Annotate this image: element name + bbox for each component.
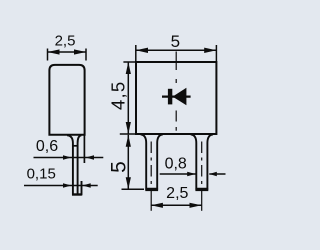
dimension line 0,8 <box>160 172 226 177</box>
svg-text:0,6: 0,6 <box>36 138 58 155</box>
lead 1 (left, front view) <box>141 134 163 188</box>
svg-text:4,5: 4,5 <box>107 81 128 110</box>
svg-text:2,5: 2,5 <box>166 185 188 202</box>
lead 1 bottom tip <box>145 189 158 192</box>
dimension line 2,5 <box>48 49 87 61</box>
dimension line 5 (top) <box>136 45 217 61</box>
body edge extension line <box>83 135 85 163</box>
lead (side view) with flare <box>67 135 81 194</box>
dimension line 0,15 <box>24 183 98 188</box>
dimension line 2,5 (bottom) <box>151 203 202 208</box>
package body (front view) <box>136 62 216 134</box>
lead step bar <box>72 145 78 147</box>
vertical axis centerline <box>175 52 177 131</box>
lead 2 bottom tip <box>195 189 208 192</box>
svg-text:0,15: 0,15 <box>27 165 56 182</box>
lead 2 centerline <box>201 142 203 211</box>
svg-text:2,5: 2,5 <box>55 32 76 49</box>
diode symbol <box>162 88 191 106</box>
lead 2 (right, front view) <box>191 134 213 188</box>
lead 1 centerline <box>150 142 152 211</box>
svg-text:5: 5 <box>107 161 130 173</box>
svg-text:5: 5 <box>171 32 180 51</box>
dimension line 0,6 <box>34 155 104 160</box>
svg-text:0,8: 0,8 <box>165 155 187 172</box>
lead bottom tip <box>72 193 82 195</box>
package body (side view) <box>49 65 84 135</box>
